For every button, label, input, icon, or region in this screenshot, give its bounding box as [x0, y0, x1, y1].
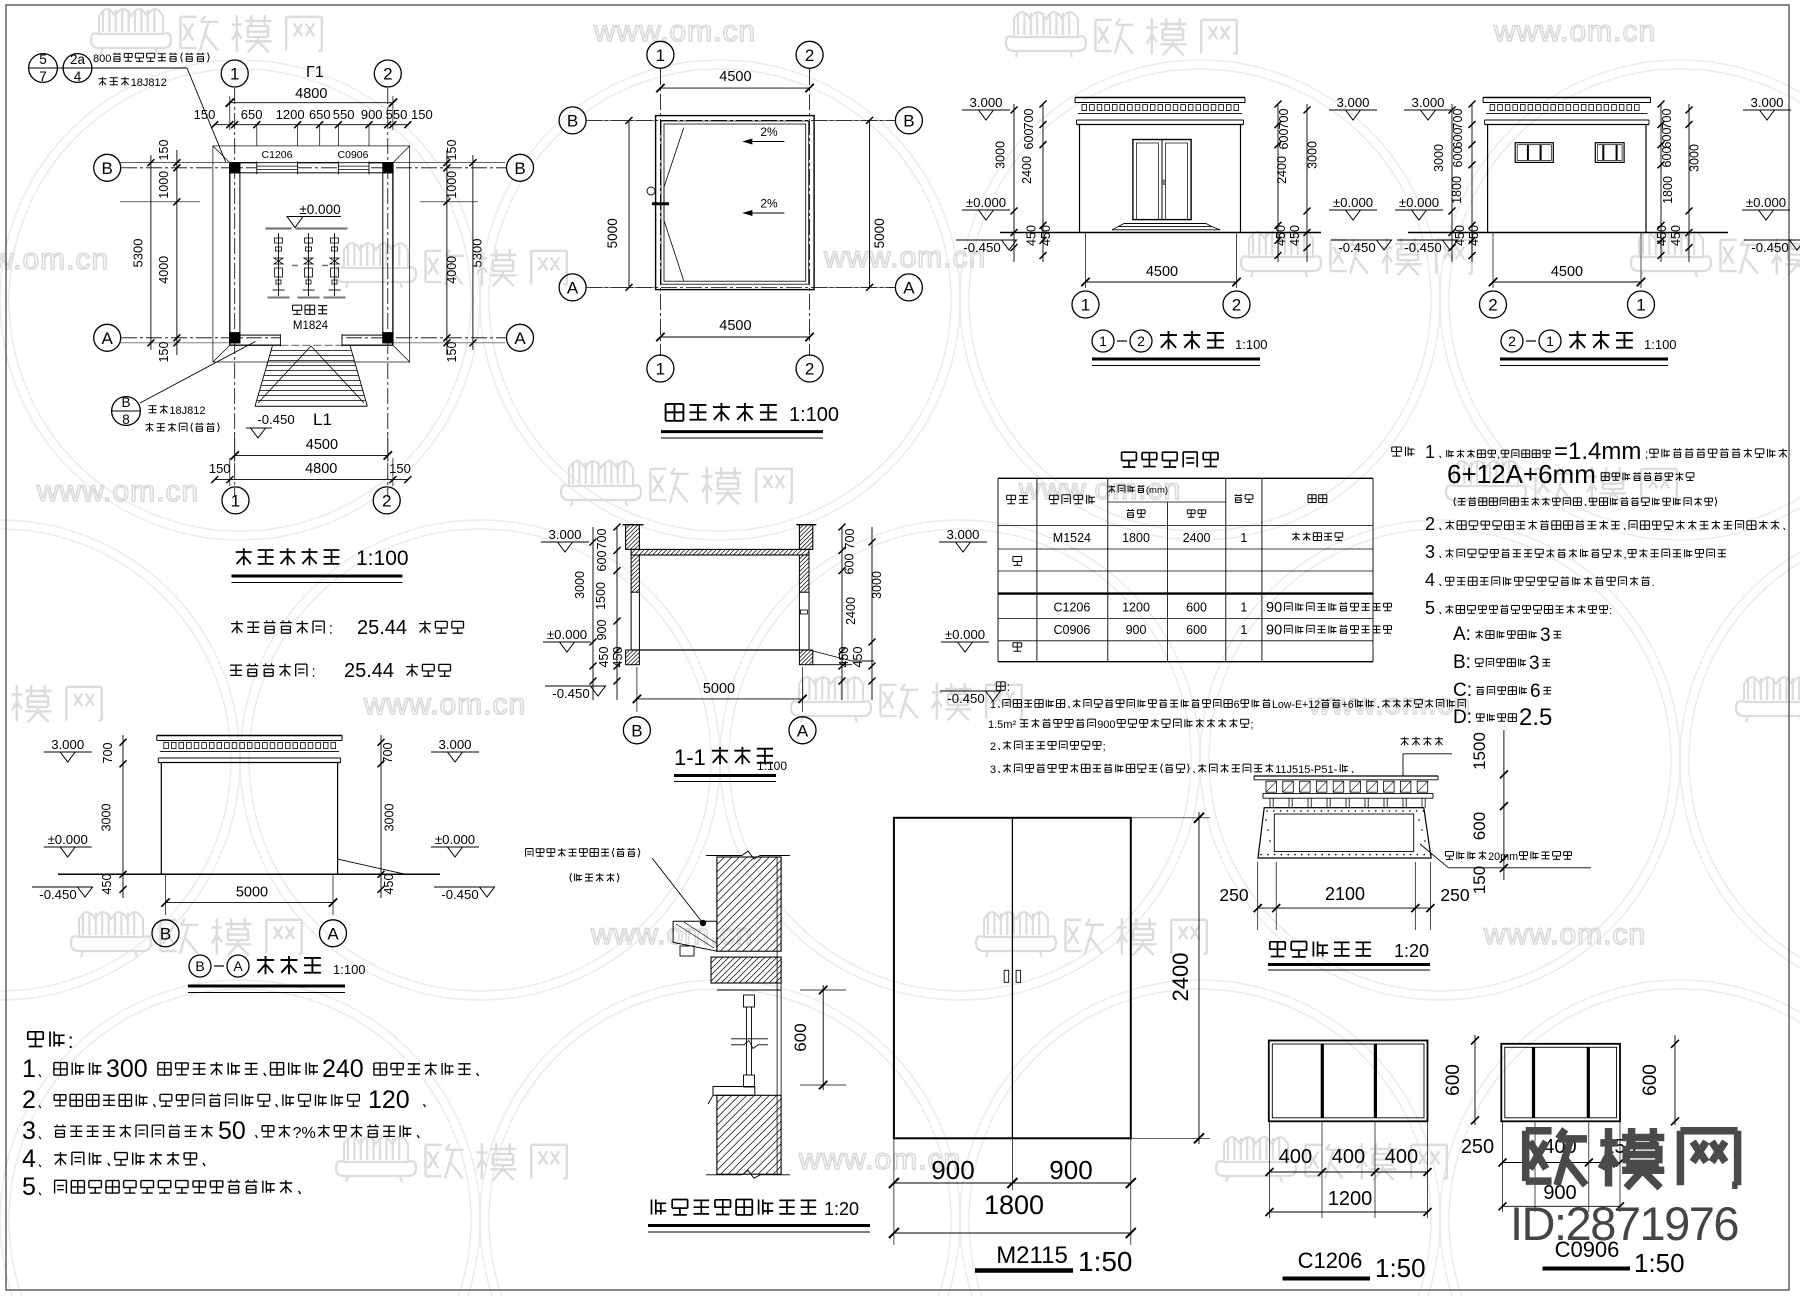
svg-text:M2115: M2115 — [996, 1242, 1068, 1269]
walldetail bottom break — [706, 1170, 790, 1178]
C0906 frame — [1501, 1044, 1620, 1122]
svg-text:450: 450 — [382, 874, 396, 895]
svg-text:3: 3 — [990, 764, 996, 776]
roof outline inner2 — [664, 124, 806, 281]
dims left side — [176, 150, 178, 355]
svg-text:400: 400 — [1385, 1146, 1418, 1168]
walldetail right face — [776, 857, 778, 1174]
svg-text:400: 400 — [1332, 1146, 1365, 1168]
svg-text:4000: 4000 — [157, 256, 171, 284]
walldetail top break — [706, 851, 790, 859]
slope arrow 1 — [744, 141, 785, 143]
elev12 dim stack left inner — [1042, 104, 1044, 262]
svg-text:90: 90 — [1266, 623, 1282, 639]
walldetail bottom wall block — [717, 1095, 781, 1174]
svg-text:4: 4 — [74, 69, 82, 84]
svg-text:www.om.cn: www.om.cn — [1308, 688, 1471, 721]
label pump room — [293, 305, 302, 314]
elev12 bubble 2 — [1223, 291, 1250, 318]
dim 4500 bottom — [235, 454, 388, 456]
svg-text:3.000: 3.000 — [946, 527, 979, 542]
svg-text:1:20: 1:20 — [824, 1199, 859, 1219]
elev12 ground line — [1000, 232, 1321, 234]
svg-text:2400: 2400 — [1275, 156, 1289, 184]
svg-text:www.om.cn: www.om.cn — [590, 918, 753, 951]
svg-text:700: 700 — [1277, 109, 1291, 130]
slope arrow 2 — [744, 212, 785, 214]
svg-text:B: B — [160, 924, 171, 943]
svg-text:A: A — [903, 279, 915, 298]
winedge sill body — [1258, 808, 1431, 858]
sect11 dim left inner — [616, 527, 618, 700]
svg-text:C1206: C1206 — [1298, 1248, 1363, 1273]
elev21 bottom dim 4500 — [1492, 233, 1494, 289]
svg-text:900: 900 — [595, 620, 609, 641]
dims right side — [446, 150, 448, 355]
floor plan title — [236, 548, 252, 565]
svg-text:2: 2 — [805, 46, 814, 65]
svg-text:B: B — [102, 159, 113, 178]
svg-text:A: A — [567, 279, 579, 298]
roof overhang outline — [213, 146, 410, 362]
svg-text:600: 600 — [1640, 1064, 1661, 1096]
svg-text:1: 1 — [1546, 333, 1554, 349]
svg-text:www.om.cn: www.om.cn — [1483, 918, 1646, 951]
svg-text:6: 6 — [1530, 681, 1541, 702]
winedge title — [1269, 942, 1285, 957]
svg-text:650: 650 — [241, 107, 263, 122]
svg-text:-0.450: -0.450 — [39, 887, 76, 902]
sect11 dim right outer — [871, 527, 873, 700]
elev12 dim stack right inner — [1277, 104, 1279, 262]
svg-text:3000: 3000 — [870, 571, 884, 599]
area note line2 — [230, 665, 242, 675]
elev12 door — [1133, 140, 1191, 220]
svg-text:5: 5 — [22, 1173, 36, 1201]
svg-text:1:100: 1:100 — [356, 547, 409, 570]
roof bubble A left — [559, 274, 586, 301]
svg-text:M1824: M1824 — [293, 320, 329, 332]
walldetail title — [652, 1200, 667, 1215]
walldetail 600 dim — [822, 985, 824, 1090]
svg-text:3000: 3000 — [573, 571, 587, 599]
svg-text:B: B — [631, 721, 642, 740]
C1206 dim row1 — [1269, 1121, 1271, 1218]
svg-text:700: 700 — [1660, 109, 1674, 130]
svg-text:www.om.cn: www.om.cn — [0, 243, 109, 276]
svg-text:www.om.cn: www.om.cn — [1493, 15, 1656, 48]
roof grid line A — [586, 286, 896, 288]
svg-text:;: ; — [1250, 719, 1253, 731]
sect11 dim right inner — [841, 527, 843, 700]
roof plan title — [666, 404, 684, 421]
dim 4800 bottom — [215, 479, 408, 481]
walldetail top wall block — [717, 857, 781, 951]
svg-text:600: 600 — [1186, 601, 1207, 615]
svg-text:400: 400 — [1279, 1146, 1312, 1168]
roof outline outer — [656, 116, 815, 290]
svg-text:90: 90 — [1266, 600, 1282, 616]
svg-text:450: 450 — [1655, 225, 1669, 246]
grid bubble 1 top — [221, 60, 248, 87]
svg-text:3000: 3000 — [383, 804, 397, 832]
svg-text::: : — [1007, 682, 1010, 694]
svg-text:1: 1 — [231, 492, 240, 511]
table notes — [996, 682, 1005, 691]
svg-text:2: 2 — [382, 492, 391, 511]
svg-text:700: 700 — [1451, 109, 1465, 130]
svg-text:550: 550 — [333, 107, 355, 122]
sect11 dim left outer — [592, 527, 594, 700]
svg-text:1: 1 — [1636, 296, 1645, 315]
elev12 title — [1092, 330, 1114, 352]
grid bubble A right — [507, 324, 534, 351]
svg-text:600: 600 — [791, 1023, 810, 1051]
svg-text:3: 3 — [1540, 625, 1551, 646]
svg-text:700: 700 — [843, 529, 857, 550]
svg-text:A: A — [514, 329, 526, 348]
svg-text:700: 700 — [381, 743, 395, 764]
svg-text:2: 2 — [1232, 296, 1241, 315]
svg-text:4: 4 — [22, 1145, 36, 1173]
svg-text:150: 150 — [389, 461, 411, 476]
dim 4800 top — [230, 102, 393, 104]
svg-text:C0906: C0906 — [1053, 623, 1090, 637]
svg-text:6+12A+6mm: 6+12A+6mm — [1447, 459, 1596, 489]
roof bubble 1 top — [647, 41, 674, 68]
svg-text:±0.000: ±0.000 — [1399, 195, 1439, 210]
grid bubble B right — [507, 154, 534, 181]
svg-text:600: 600 — [1022, 129, 1036, 150]
sect11 left parapet — [626, 525, 640, 550]
sect11 dim 5000 — [636, 667, 638, 712]
svg-text:3000: 3000 — [1432, 144, 1446, 172]
svg-text:600: 600 — [1451, 128, 1465, 149]
roof grid line 2 — [809, 69, 811, 356]
svg-text:1: 1 — [1240, 623, 1247, 637]
notes-right label — [1392, 447, 1402, 456]
svg-text:2%: 2% — [760, 125, 778, 139]
svg-text:2: 2 — [1488, 296, 1497, 315]
svg-text:±0.000: ±0.000 — [435, 832, 475, 847]
svg-text:1: 1 — [1081, 296, 1090, 315]
svg-text:B: B — [121, 395, 130, 410]
svg-text:450: 450 — [851, 647, 865, 668]
svg-text:450: 450 — [611, 647, 625, 668]
svg-text:20mm: 20mm — [1488, 851, 1518, 863]
svg-text:1: 1 — [230, 65, 239, 84]
svg-text:B: B — [903, 112, 914, 131]
roof dim 5000 right — [869, 120, 871, 287]
svg-text:250: 250 — [1219, 885, 1248, 905]
svg-text:150: 150 — [1470, 866, 1489, 894]
winedge band2 — [1263, 797, 1433, 799]
winedge right dim — [1503, 730, 1505, 880]
svg-text:600: 600 — [1660, 128, 1674, 149]
svg-text:A:: A: — [1453, 624, 1471, 645]
area note line1 — [231, 621, 243, 634]
door M2115 dim 1800 — [894, 1232, 1131, 1234]
svg-text:www.om.cn: www.om.cn — [363, 688, 526, 721]
svg-text:450: 450 — [837, 647, 851, 668]
floor plan grid line 1 vertical — [234, 88, 236, 497]
svg-text:2a: 2a — [70, 52, 86, 67]
svg-text:ID:2871976: ID:2871976 — [1510, 1197, 1738, 1250]
svg-text:250: 250 — [1461, 1136, 1494, 1158]
svg-text:1500: 1500 — [594, 582, 608, 610]
C0906 dim row2 — [1503, 1205, 1621, 1207]
svg-text:150: 150 — [194, 107, 216, 122]
svg-text:450: 450 — [1453, 225, 1467, 246]
C1206 frame — [1269, 1041, 1428, 1122]
svg-text:4500: 4500 — [719, 69, 751, 85]
sect11 floor — [631, 649, 809, 651]
sect11 left wall — [631, 555, 639, 592]
elevBA bubble B — [152, 920, 179, 947]
svg-text:3.000: 3.000 — [51, 737, 84, 752]
svg-text:±0.000: ±0.000 — [48, 832, 88, 847]
svg-text:4500: 4500 — [1146, 264, 1178, 280]
dim row top subdivisions — [215, 124, 408, 126]
svg-text:3: 3 — [1529, 653, 1540, 674]
C0906 dim row1 — [1502, 1121, 1504, 1212]
grid bubble A left — [94, 324, 121, 351]
svg-text:±0.000: ±0.000 — [299, 202, 340, 217]
elevBA ground line — [58, 873, 440, 875]
svg-text:5000: 5000 — [872, 218, 887, 248]
svg-text:900: 900 — [1097, 719, 1115, 731]
walldetail lintel block — [673, 921, 717, 951]
svg-text:450: 450 — [1025, 225, 1039, 246]
svg-text:C0906: C0906 — [338, 149, 369, 161]
walldetail beam — [711, 957, 781, 983]
elev21 window1 C1206 — [1515, 143, 1553, 163]
svg-text:150: 150 — [445, 342, 459, 363]
outer wall — [230, 163, 393, 346]
svg-text:2.5: 2.5 — [1519, 704, 1552, 731]
roof outline inner — [661, 121, 809, 284]
svg-text:±0.000: ±0.000 — [547, 627, 587, 642]
elevBA title — [189, 955, 211, 977]
elev21 wall — [1487, 125, 1489, 233]
C0906 dim 600 — [1674, 1035, 1676, 1125]
svg-text:1800: 1800 — [1450, 176, 1464, 204]
door M1824 opening in plan — [280, 334, 342, 346]
svg-text:1: 1 — [656, 360, 665, 379]
sect11 right wall — [799, 555, 809, 592]
svg-text:150: 150 — [209, 461, 231, 476]
detail bubble B/8 — [112, 397, 141, 426]
door M2115 dim 900 900 — [893, 1138, 895, 1245]
svg-text:2400: 2400 — [1168, 953, 1193, 1002]
svg-text:150: 150 — [157, 342, 171, 363]
svg-text:;: ; — [1103, 741, 1106, 753]
walldetail leader line — [652, 858, 702, 922]
svg-text:3.000: 3.000 — [548, 527, 581, 542]
svg-text:600: 600 — [595, 551, 609, 572]
svg-text:240: 240 — [322, 1055, 364, 1083]
svg-text:3.000: 3.000 — [1411, 95, 1444, 110]
svg-text:1800: 1800 — [984, 1190, 1044, 1220]
svg-text:?%: ?% — [293, 1125, 316, 1142]
roof slope diagonals — [664, 128, 684, 187]
svg-text:1:100: 1:100 — [1235, 337, 1268, 352]
roof bubble 2 bottom — [796, 355, 823, 382]
svg-text:4800: 4800 — [305, 461, 337, 477]
column 1A — [229, 332, 240, 343]
svg-text:450: 450 — [1288, 225, 1302, 246]
svg-text:1:100: 1:100 — [333, 962, 366, 977]
svg-text:‖: ‖ — [1162, 180, 1165, 187]
svg-text:1: 1 — [22, 1055, 36, 1083]
svg-text:B:: B: — [1453, 652, 1471, 673]
svg-text:3000: 3000 — [100, 804, 114, 832]
svg-text:C1206: C1206 — [1053, 601, 1090, 615]
svg-text:(mm): (mm) — [1146, 485, 1168, 496]
roof dim 5000 left — [628, 120, 630, 287]
walldetail mid break — [731, 1038, 768, 1040]
svg-text:700: 700 — [1022, 109, 1036, 130]
svg-text:450: 450 — [100, 874, 114, 895]
door M2115 center split — [1011, 818, 1013, 1139]
svg-text::: : — [68, 1030, 74, 1053]
svg-text:600: 600 — [843, 554, 857, 575]
winedge bottom dim — [1257, 862, 1259, 930]
roof bubble A right — [895, 274, 922, 301]
sect11 left footing — [626, 650, 640, 665]
walldetail window frame — [744, 995, 755, 1007]
sect11 right parapet — [799, 525, 812, 550]
svg-text:1200: 1200 — [1328, 1188, 1373, 1210]
svg-text:600: 600 — [1277, 129, 1291, 150]
svg-text:4500: 4500 — [1551, 264, 1583, 280]
watermark logos row6 — [336, 1137, 416, 1182]
sect11 bubble A — [789, 717, 816, 744]
svg-text:5000: 5000 — [605, 218, 620, 248]
svg-text:2: 2 — [1137, 333, 1145, 349]
svg-text:±0.000: ±0.000 — [966, 195, 1006, 210]
svg-text:1000: 1000 — [445, 171, 459, 199]
svg-text:1:20: 1:20 — [1394, 941, 1429, 961]
svg-text:2400: 2400 — [1020, 156, 1034, 184]
svg-text:3: 3 — [1425, 542, 1435, 562]
sect11 roof slab — [631, 549, 809, 555]
svg-text:D:: D: — [1453, 707, 1472, 728]
svg-text:450: 450 — [1669, 225, 1683, 246]
svg-text:Γ1: Γ1 — [306, 64, 324, 81]
svg-text:.: . — [1652, 577, 1655, 589]
walldetail head lines — [711, 982, 781, 984]
svg-text:B: B — [514, 159, 525, 178]
C1206 mullions — [1321, 1044, 1324, 1118]
svg-text:1:100: 1:100 — [1644, 337, 1677, 352]
svg-text:B: B — [195, 958, 204, 974]
svg-text:18J812: 18J812 — [169, 405, 205, 417]
svg-text:700: 700 — [101, 743, 115, 764]
svg-text:1:50: 1:50 — [1078, 1246, 1133, 1277]
svg-text:-0.450: -0.450 — [963, 240, 1000, 255]
svg-text:-0.450: -0.450 — [947, 691, 984, 706]
roof bubble 1 bottom — [647, 355, 674, 382]
svg-text:450: 450 — [1039, 225, 1053, 246]
svg-text:5: 5 — [1425, 598, 1435, 618]
svg-text:1: 1 — [1240, 601, 1247, 615]
svg-text:5: 5 — [39, 52, 47, 67]
column 2B — [383, 162, 394, 173]
svg-text:1800: 1800 — [1661, 176, 1675, 204]
svg-text:2: 2 — [22, 1086, 36, 1114]
svg-text:300: 300 — [106, 1055, 148, 1083]
roof bubble B left — [559, 107, 586, 134]
svg-text:3.000: 3.000 — [438, 737, 471, 752]
svg-text:1000: 1000 — [157, 171, 171, 199]
svg-text:600: 600 — [1186, 623, 1207, 637]
roof bubble B right — [895, 107, 922, 134]
overhang corner miters — [213, 146, 230, 163]
svg-text:±0.000: ±0.000 — [1746, 195, 1786, 210]
svg-text:-0.450: -0.450 — [552, 686, 589, 701]
svg-text:1800: 1800 — [1122, 531, 1150, 545]
svg-text:,: , — [1624, 549, 1627, 561]
svg-text:1-1: 1-1 — [674, 745, 706, 770]
svg-text:www.om.cn: www.om.cn — [36, 475, 199, 508]
notes-right 1c — [1454, 497, 1455, 506]
window C1206 opening in plan — [257, 161, 298, 174]
svg-text:3000: 3000 — [1306, 141, 1320, 169]
svg-text:C1206: C1206 — [262, 149, 293, 161]
svg-text:1: 1 — [1240, 531, 1247, 545]
inner wall — [240, 173, 383, 335]
elev21 dim stack left — [1451, 104, 1453, 262]
svg-text:2: 2 — [1425, 514, 1435, 534]
svg-text:4000: 4000 — [445, 256, 459, 284]
sect11 right footing — [799, 650, 812, 665]
door M2115 handles — [1004, 970, 1009, 982]
svg-text:600: 600 — [1470, 812, 1489, 840]
stairs below door — [271, 350, 351, 352]
walldetail sill — [713, 1087, 755, 1096]
svg-text:6: 6 — [1234, 699, 1240, 711]
svg-text:900: 900 — [1049, 1155, 1092, 1185]
svg-text:800: 800 — [93, 53, 111, 65]
svg-text:5300: 5300 — [470, 239, 485, 268]
winedge leader2 — [1445, 852, 1453, 860]
svg-text:550: 550 — [386, 107, 408, 122]
svg-text:+6: +6 — [1342, 699, 1354, 711]
roof drain mark — [652, 202, 669, 205]
svg-text:2400: 2400 — [844, 597, 858, 625]
svg-text:2: 2 — [383, 65, 392, 84]
svg-text:A: A — [102, 329, 114, 348]
sect11 drain slope — [809, 650, 852, 661]
svg-text:700: 700 — [595, 529, 609, 550]
table headers — [1007, 495, 1016, 503]
svg-text:4: 4 — [1425, 570, 1435, 590]
svg-text:5000: 5000 — [236, 885, 268, 901]
elevBA dim right — [380, 735, 382, 898]
svg-text:;: ; — [1645, 449, 1648, 461]
elevBA bubble A — [320, 920, 347, 947]
floor plan grid line 2 vertical — [387, 88, 389, 497]
winedge mullion row — [1266, 807, 1424, 809]
svg-text::: : — [1609, 605, 1612, 617]
svg-text:Low-E+12: Low-E+12 — [1272, 699, 1320, 711]
svg-text:4800: 4800 — [295, 86, 327, 102]
svg-text:3: 3 — [22, 1117, 36, 1145]
svg-text:50: 50 — [218, 1117, 246, 1145]
svg-text:600: 600 — [1660, 147, 1674, 168]
svg-text:120: 120 — [368, 1086, 410, 1114]
